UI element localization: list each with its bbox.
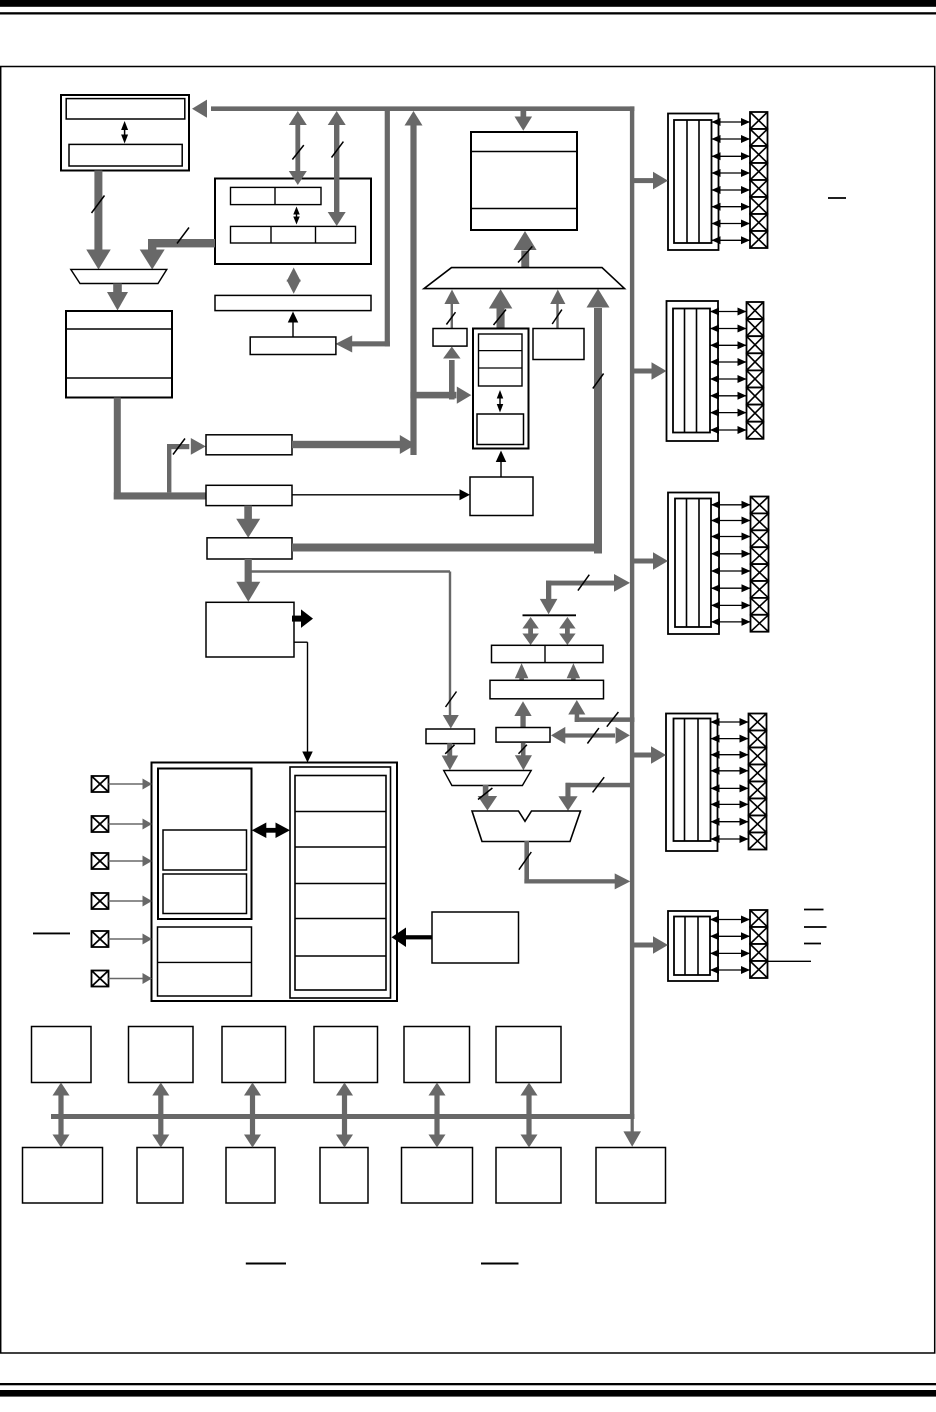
RAM file registers U3 (66, 311, 172, 398)
pin X-box P1 (92, 776, 109, 792)
arrowhead thick bus up into mux (587, 289, 610, 308)
instruction block U2 outer (215, 179, 371, 265)
arrowhead elbow into program mux (140, 250, 165, 270)
page bottom thin rule (0, 1383, 936, 1385)
peripheral bottom box U6 (496, 1148, 561, 1204)
instruction decode mux (424, 268, 625, 289)
box C (status reg) (490, 680, 604, 699)
double arrow D2 (559, 617, 575, 645)
IR latch box (250, 337, 336, 355)
black double arrow timing-control (252, 823, 290, 839)
instruction row2 cells (231, 226, 356, 243)
bus tail arrowhead (623, 1131, 641, 1146)
arrow B2 to B3 (236, 506, 260, 538)
flash program memory block U1 outer (61, 95, 189, 171)
slash A2 arrow (445, 745, 454, 754)
PORTD inner box (674, 719, 711, 842)
black arrow BB left (392, 928, 433, 948)
flash cell inner box (66, 99, 185, 119)
PORTE bus arrow (632, 936, 668, 954)
peripheral bottom box U7 (596, 1148, 666, 1204)
ALU output head (615, 873, 631, 889)
dash label VSS (804, 943, 821, 945)
peripheral bottom box U3 (226, 1148, 275, 1204)
pin X-box P4 (92, 893, 109, 909)
PORTE inner box (674, 917, 710, 976)
slash on literal bus (578, 575, 589, 591)
peripheral top box T1 (32, 1027, 92, 1083)
peripheral top box T3 (222, 1027, 286, 1083)
arrow B3 to B4 (236, 559, 260, 602)
ALU output bus (524, 841, 616, 884)
PORTE outer box (668, 911, 718, 981)
pin line P3 (109, 860, 144, 862)
PORTC pin arrows (711, 501, 751, 626)
page top thick rule (0, 0, 936, 7)
literal bus elbow (546, 581, 615, 600)
mux input 2 (thick) (489, 289, 512, 329)
arrow mux to RAM (107, 284, 128, 311)
timing block outer (152, 763, 398, 1002)
slash on C elbow (607, 712, 619, 727)
box W1 (status) (433, 329, 467, 347)
slash mux input 2 (494, 310, 507, 326)
arrow decode mux to ROM latch (513, 231, 536, 268)
RAM addr bus down (114, 398, 121, 500)
slash on addr branch (173, 439, 185, 455)
arrowhead mux input 1 (444, 290, 459, 305)
line from OSC pin (768, 960, 812, 962)
PORTC outer box (668, 493, 719, 635)
arrowhead thin branch down (443, 715, 459, 729)
slash on bus arrow B (332, 142, 344, 158)
page top thin rule (0, 12, 936, 14)
pin arrowhead P3 (143, 856, 153, 867)
arrow up into W1 (443, 347, 461, 400)
pin X-box P2 (92, 816, 109, 832)
ROM latch block U4 (471, 132, 577, 230)
box W3 (pointer) (533, 329, 584, 360)
thin branch right from B3 arrow (248, 570, 450, 572)
pin X-box P5 (92, 931, 109, 947)
box A2 (mux feed) (426, 729, 475, 744)
black arrow right of B4 (292, 609, 313, 628)
PORTB pin arrows (710, 308, 747, 435)
PORTA bus arrow (632, 172, 668, 190)
box D (prescaler pair) (492, 645, 604, 662)
branch horizontal into IR latch (352, 341, 390, 346)
FSR block outer (473, 329, 529, 449)
stack inner box (69, 144, 182, 166)
program bus arrowhead into flash block (192, 100, 207, 118)
box BB (osc) (432, 912, 519, 963)
arrowhead into register block top (302, 752, 313, 763)
arrow B to Wmux (515, 743, 532, 771)
arrowhead into IR latch (336, 335, 353, 352)
instruction row1 cells (231, 187, 322, 204)
PORTA inner box (674, 120, 712, 243)
PORTB bus arrow (632, 362, 667, 380)
thin arrow IR latch up (288, 312, 299, 337)
branch top segment (167, 444, 189, 449)
slash on bus arrow A (292, 145, 303, 159)
PORTE pin arrows (710, 916, 750, 975)
dash label MCLR (804, 909, 824, 911)
dash label bottom 1 (246, 1263, 286, 1265)
PORTC bus arrow (632, 552, 668, 570)
PORTC inner box (675, 499, 711, 628)
instr path vertical line (410, 125, 416, 455)
program bus horizontal (top) (211, 106, 634, 111)
slash on elbow (177, 228, 189, 244)
PORTD pin X cells (749, 714, 767, 850)
slash on mux-ROM arrow (518, 246, 532, 262)
arrow C to D left (515, 663, 529, 680)
arrowhead into program mux (86, 250, 111, 270)
slash on thick vertical bus (593, 374, 604, 389)
arrowhead instr path up (405, 111, 423, 126)
bus B1 to instruction path (292, 441, 400, 448)
arrow Wmux to ALU (478, 785, 498, 811)
box B2 (addr reg) (206, 485, 292, 505)
peripheral double arrow 3 (244, 1083, 261, 1148)
peripheral double arrow 2 (152, 1083, 169, 1148)
arrow C to D right (567, 663, 581, 680)
double arrow B to bus (551, 727, 630, 744)
FSR inner lower (477, 414, 524, 445)
peripheral double arrow 4 (336, 1083, 353, 1148)
thin branch down (449, 572, 451, 716)
arrow W to C (514, 701, 531, 727)
PORTB outer box (667, 301, 719, 441)
double arrow D1 (522, 617, 538, 645)
bus flash to mux (thick) (94, 171, 102, 251)
mux input 3 line (556, 302, 558, 329)
main data bus vertical (630, 106, 634, 1119)
bus elbow to C (575, 714, 635, 723)
arrowhead mux input 3 (550, 290, 565, 305)
peripheral double arrow 1 (53, 1083, 70, 1148)
peripheral top box T4 (314, 1027, 378, 1083)
PORTC pin X cells (751, 497, 769, 632)
page bottom thick rule (0, 1390, 936, 1397)
PORTD bus arrow (632, 746, 666, 764)
PORTB pin X cells (747, 302, 764, 439)
double arrow instr block to program latch (287, 268, 301, 294)
dash label left (33, 932, 70, 934)
pin X-box P6 (92, 971, 109, 987)
slash on thin branch (446, 692, 457, 708)
pin arrowhead P2 (143, 819, 153, 830)
PORTA outer box (668, 114, 719, 251)
PORTB inner box (673, 309, 710, 433)
pin arrowhead P1 (143, 779, 153, 790)
program latch long box (215, 295, 371, 310)
horizontal branch into FSR (410, 392, 456, 399)
timing sub box 2 (163, 874, 247, 914)
slash Wmux-ALU (478, 788, 492, 800)
double arrow FSR (497, 390, 504, 413)
control right inner box (295, 776, 386, 991)
pin line P6 (109, 978, 144, 980)
PORTA pin arrows (712, 118, 751, 244)
peripheral top box T6 (496, 1027, 561, 1083)
pin arrowhead P6 (143, 973, 153, 984)
pin line P2 (109, 823, 144, 825)
black junction segment (523, 614, 577, 616)
thin arrow Z up (496, 451, 507, 478)
slash ALU output (519, 852, 531, 870)
thick bus B3 right (292, 544, 602, 552)
program address mux (71, 269, 167, 283)
FSR inner upper (479, 334, 523, 386)
peripheral top box T5 (404, 1027, 470, 1083)
dash label bottom 2 (481, 1263, 519, 1265)
bus elbow ALU head (558, 796, 577, 811)
arrow A2 to Wmux (442, 743, 459, 770)
mux input 1 line (451, 302, 453, 329)
PORTE pin X cells (750, 910, 768, 978)
box B3 (addr mux out) (207, 538, 292, 559)
box B (W reg) (496, 728, 550, 743)
double arrow flash-stack (121, 121, 128, 144)
arrowhead into addr latch (191, 438, 206, 455)
control right outer box (290, 767, 391, 998)
W mux trapezoid (444, 771, 532, 786)
PORTD outer box (666, 714, 718, 852)
PORTA pin X cells (750, 112, 768, 248)
bus width slash on flash bus (92, 196, 105, 214)
branch up to addr latch box (167, 444, 171, 492)
thick bus vertical to decode mux (594, 308, 602, 554)
bus tail down (631, 1119, 634, 1132)
bus elbow head to C (568, 700, 585, 715)
peripheral top box T2 (129, 1027, 194, 1083)
pin arrowhead P4 (143, 896, 153, 907)
peripheral double arrow 5 (429, 1083, 446, 1148)
program bus vertical branch (385, 111, 390, 347)
bus arrow B (bus into instr row2) (328, 111, 346, 226)
pin line P1 (109, 783, 144, 785)
pin line P5 (109, 938, 144, 940)
decode box Z (470, 477, 533, 516)
bus instr block to program mux elbow (148, 239, 215, 251)
slash mux input 3 (552, 310, 562, 324)
arrow bus into ROM latch (515, 111, 533, 131)
timing left tall box (158, 769, 252, 920)
box B4 (decode/control) (206, 602, 294, 657)
peripheral double arrow 6 (521, 1083, 538, 1148)
slash B-bus (587, 728, 599, 743)
slash bus-ALU (593, 777, 605, 792)
slash B-Wmux (519, 745, 527, 754)
arrowhead branch into FSR (457, 386, 472, 403)
peripheral bottom box U1 (23, 1148, 103, 1204)
dash label RA4 (828, 197, 846, 199)
timing lower box (158, 927, 252, 996)
timing sub box 1 (163, 830, 247, 870)
arrowhead B1 bus (400, 435, 416, 454)
ALU U5 (472, 811, 581, 842)
peripheral bottom box U2 (137, 1148, 183, 1204)
thin line B4 to register block (294, 642, 308, 752)
peripheral bottom box U4 (320, 1148, 368, 1204)
pin arrowhead P5 (143, 934, 153, 945)
thin line B2 to decode box (292, 494, 460, 496)
RAM addr bus right (114, 492, 207, 499)
pin line P4 (109, 900, 144, 902)
peripheral bus horizontal (51, 1114, 634, 1119)
peripheral bottom box U5 (402, 1148, 473, 1204)
PORTD pin arrows (711, 718, 749, 843)
literal bus right head (614, 574, 630, 592)
literal bus down head (540, 599, 558, 614)
dash label VDD (804, 926, 827, 928)
addr latch box B1 (206, 435, 292, 455)
pin X-box P3 (92, 853, 109, 869)
bus arrow A (bus to instr block) (289, 111, 307, 185)
bus elbow to ALU (565, 783, 630, 797)
double arrow row1-row2 (293, 207, 300, 225)
arrowhead B2 line (460, 489, 471, 500)
slash mux input 1 (446, 312, 455, 324)
